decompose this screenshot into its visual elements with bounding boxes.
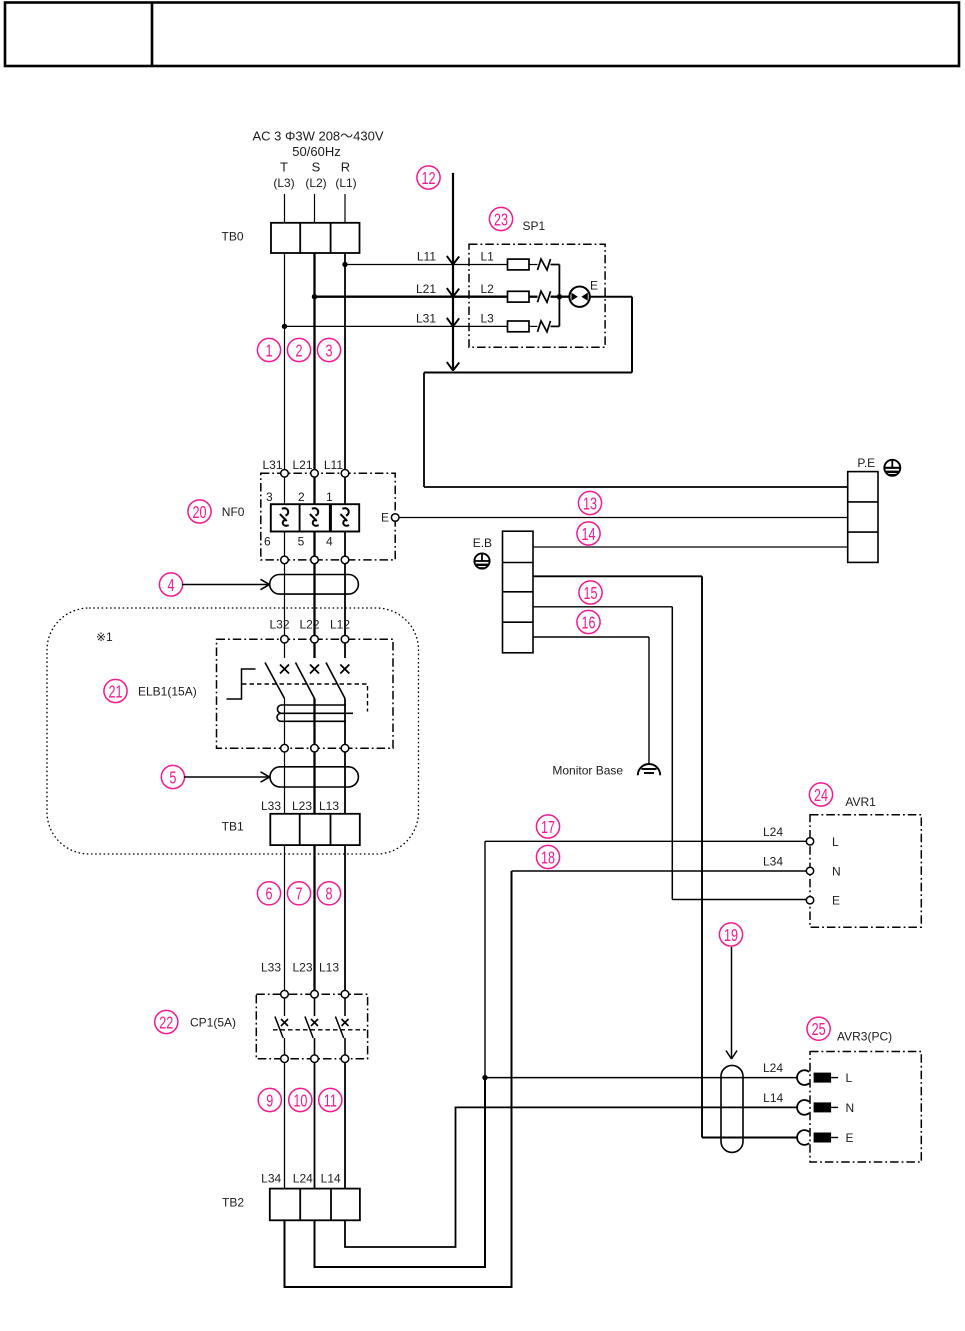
junction dot R/L11	[342, 262, 347, 267]
svg-text:21: 21	[108, 682, 122, 702]
svg-text:(L1): (L1)	[335, 176, 356, 190]
terminal block TB2	[270, 1189, 360, 1221]
wire SP1 internal bus	[558, 265, 560, 327]
contact cross pole T	[280, 665, 289, 674]
svg-text:L23: L23	[292, 960, 312, 974]
connector arc AVR3 E	[797, 1130, 809, 1145]
node 24	[809, 783, 832, 806]
wire SP1 earth down	[631, 297, 633, 373]
breaker NF0 box	[261, 473, 395, 560]
wire NF0 pole T internal	[284, 477, 286, 556]
wire R CP1 to TB2	[344, 1063, 346, 1189]
terminal block TB0	[271, 223, 360, 253]
arrow on bus at L31	[447, 318, 459, 327]
svg-text:※1: ※1	[96, 630, 113, 644]
junction dot T/L31	[282, 324, 287, 329]
svg-text:ELB1(15A): ELB1(15A)	[138, 685, 197, 699]
wire T ELB1 to TB1	[284, 752, 286, 814]
wire bus to lamp	[559, 296, 570, 298]
terminal circle NF0 E	[391, 514, 399, 522]
terminal block P.E	[848, 472, 878, 563]
svg-text:CP1(5A): CP1(5A)	[190, 1016, 236, 1030]
dotted option box	[47, 608, 419, 854]
wire AVR1 E	[672, 899, 806, 901]
wire ELB1 pole T lower	[284, 699, 286, 745]
svg-text:1: 1	[265, 341, 272, 361]
svg-text:N: N	[832, 864, 841, 878]
svg-text:AVR3(PC): AVR3(PC)	[837, 1030, 892, 1044]
wire S ELB1 to TB1	[313, 752, 315, 814]
earth symbol E.B	[474, 553, 489, 568]
svg-text:3: 3	[325, 341, 332, 361]
regulator AVR3 box	[810, 1052, 921, 1163]
wire L21	[315, 296, 508, 298]
node 20	[188, 500, 211, 523]
wire NF0 pole S internal	[313, 477, 315, 556]
node 21	[104, 679, 127, 702]
wire varistor to arrester L3	[529, 325, 538, 327]
terminal circle AVR1 E	[806, 897, 813, 904]
wire arrester L1 to bus	[551, 264, 560, 266]
breaker element pole 3	[280, 508, 289, 526]
svg-text:(L3): (L3)	[273, 176, 294, 190]
svg-text:1: 1	[326, 490, 333, 504]
svg-text:L: L	[846, 1071, 853, 1085]
breaker element pole 1	[340, 508, 349, 526]
node 1	[257, 338, 280, 361]
svg-text:19: 19	[724, 926, 738, 946]
wire S above TB0	[314, 194, 316, 223]
svg-text:TB2: TB2	[222, 1196, 244, 1210]
breaker ELB1 box	[217, 639, 394, 748]
svg-text:L33: L33	[261, 799, 281, 813]
svg-text:L23: L23	[292, 799, 312, 813]
svg-text:P.E: P.E	[857, 456, 875, 470]
wire 18 horizontal	[512, 870, 807, 872]
svg-text:9: 9	[266, 1091, 273, 1111]
wire SP1 earth left	[424, 372, 632, 374]
wire R above TB0	[344, 194, 346, 223]
earth symbol P.E	[884, 460, 900, 476]
wire 14 E.B to P.E	[533, 546, 848, 548]
varistor L1	[508, 259, 530, 270]
svg-text:L: L	[832, 835, 839, 849]
contact cross CP1 T	[281, 1019, 288, 1026]
terminal circle AVR1 N	[806, 867, 813, 874]
svg-text:20: 20	[193, 503, 207, 523]
svg-text:24: 24	[814, 786, 828, 806]
svg-text:AVR1: AVR1	[845, 795, 876, 809]
wire S phase TB0 to NF0	[313, 253, 315, 470]
svg-text:TB0: TB0	[221, 230, 243, 244]
node 16	[577, 610, 600, 633]
arrow on bus at L21	[447, 288, 459, 297]
svg-text:L22: L22	[299, 618, 319, 632]
svg-text:L34: L34	[261, 1172, 281, 1186]
wire NF0 pole R internal	[344, 477, 346, 556]
wire T phase TB0 to NF0	[284, 253, 286, 470]
wire E.B to AVR3 E horizontal	[533, 575, 702, 577]
node 7	[287, 882, 310, 905]
breaker CP1 box	[256, 994, 367, 1058]
wire L24 to AVR3 L	[485, 1077, 798, 1079]
node 11	[319, 1088, 342, 1111]
svg-text:T: T	[280, 159, 288, 174]
svg-text:SP1: SP1	[523, 219, 546, 233]
contact cross pole S	[310, 665, 319, 674]
svg-text:6: 6	[264, 535, 271, 549]
arrow node 19	[726, 947, 737, 1059]
wire R ELB1 to TB1	[344, 752, 346, 814]
svg-text:18: 18	[541, 848, 555, 868]
svg-text:E.B: E.B	[473, 536, 492, 550]
wire AVR3 E horizontal	[702, 1137, 798, 1139]
svg-text:L24: L24	[763, 1061, 783, 1075]
wire 13 NF0 E to PE	[399, 517, 848, 519]
breaker blade pole T	[265, 663, 285, 699]
svg-text:NF0: NF0	[222, 505, 245, 519]
svg-text:L13: L13	[319, 799, 339, 813]
node 17	[536, 815, 559, 838]
wire R phase TB0 to NF0	[344, 253, 346, 470]
arrow at bus bottom	[447, 362, 459, 371]
node 8	[317, 882, 340, 905]
svg-text:N: N	[846, 1101, 855, 1115]
contact cross pole R	[340, 665, 349, 674]
svg-text:L11: L11	[324, 458, 343, 472]
wire CP1 pole S lower	[314, 1038, 316, 1055]
wire SP1 earth down 2	[423, 373, 425, 488]
contact cross CP1 S	[311, 1019, 318, 1026]
junction dot SP1 bus	[557, 294, 562, 299]
wire 17 vertical	[484, 841, 486, 1077]
terminal block E.B	[503, 531, 534, 653]
svg-text:11: 11	[324, 1091, 337, 1111]
terminal circles NF0 bottom	[281, 556, 349, 564]
linkage dashed ELB1	[242, 684, 368, 712]
wire T TB1 to CP1	[284, 845, 286, 990]
node 6	[257, 882, 280, 905]
svg-text:22: 22	[159, 1013, 173, 1033]
arrester gap L3	[538, 321, 551, 332]
arrester gap L1	[538, 259, 551, 270]
terminal circle AVR1 L	[806, 838, 813, 845]
terminal circles ELB1 top	[281, 635, 349, 643]
regulator AVR1 box	[810, 815, 921, 928]
svg-text:5: 5	[298, 535, 305, 549]
wire ELB1 pole S lower	[313, 699, 315, 745]
svg-text:E: E	[590, 279, 598, 293]
terminal circles CP1 bottom	[281, 1055, 349, 1063]
wire L14 TB2 to AVR3 N	[345, 1107, 798, 1247]
surge protector SP1 box	[469, 244, 605, 347]
svg-text:S: S	[312, 159, 321, 174]
wire 17 horizontal	[485, 840, 806, 842]
svg-text:23: 23	[494, 210, 508, 230]
wire T NF0 to ELB1	[284, 564, 286, 636]
svg-text:17: 17	[541, 818, 555, 838]
svg-text:L1: L1	[481, 250, 495, 264]
ferrite core 4	[270, 575, 359, 595]
chassis earth monitor base	[638, 764, 660, 775]
wire T CP1 to TB2	[284, 1063, 286, 1189]
svg-text:7: 7	[295, 885, 302, 905]
node 9	[258, 1088, 281, 1111]
svg-text:R: R	[341, 159, 350, 174]
node 22	[155, 1010, 178, 1033]
ZCT coil ELB1	[277, 705, 353, 721]
wire bus 12 vertical	[452, 173, 454, 371]
terminal block TB1	[270, 814, 360, 845]
svg-text:14: 14	[582, 525, 596, 545]
wire T above TB0	[284, 194, 286, 223]
svg-text:5: 5	[169, 768, 176, 788]
wire E.B to AVR3 E vertical	[701, 576, 703, 1137]
wire L34 TB2 to AVR1 N	[285, 871, 512, 1287]
svg-text:L21: L21	[292, 458, 312, 472]
node 2	[287, 338, 310, 361]
svg-text:L34: L34	[763, 854, 783, 868]
svg-text:13: 13	[583, 494, 597, 514]
terminal circles ELB1 bottom	[281, 744, 349, 752]
svg-text:6: 6	[265, 885, 272, 905]
svg-text:Monitor Base: Monitor Base	[552, 763, 623, 777]
wire R NF0 to ELB1	[344, 564, 346, 636]
svg-text:E: E	[832, 894, 840, 908]
wire SP1 earth to PE	[424, 486, 848, 488]
varistor L3	[508, 321, 530, 332]
svg-text:L21: L21	[416, 282, 436, 296]
title block frame	[5, 3, 959, 67]
wire 15 E.B to AVR1 E horizontal	[533, 606, 672, 608]
wire CP1 pole R upper	[344, 998, 346, 1016]
svg-text:2: 2	[298, 490, 305, 504]
breaker blade pole S	[296, 663, 315, 699]
ferrite core AVR3	[721, 1065, 743, 1152]
svg-text:(L2): (L2)	[305, 176, 326, 190]
svg-text:L32: L32	[269, 618, 289, 632]
wire CP1 pole T upper	[284, 998, 286, 1016]
node 13	[578, 491, 601, 514]
wire arrester L3 to bus	[551, 325, 560, 327]
node 10	[289, 1088, 312, 1111]
varistor L2	[508, 291, 530, 302]
arrow node 4	[182, 579, 270, 589]
wire varistor to arrester L2	[529, 296, 538, 298]
node 15	[579, 581, 602, 604]
svg-text:4: 4	[168, 576, 175, 596]
contact cross CP1 R	[342, 1019, 349, 1026]
trip lever ELB1	[227, 669, 256, 699]
breaker element pole 2	[310, 508, 319, 526]
svg-text:10: 10	[293, 1091, 307, 1111]
breaker blade CP1 T	[275, 1017, 283, 1039]
svg-text:L31: L31	[416, 312, 436, 326]
wire R TB1 to CP1	[344, 845, 346, 990]
wire 16 vertical	[648, 637, 650, 765]
connector pin AVR3 L	[814, 1073, 838, 1083]
breaker blade pole R	[326, 663, 345, 699]
node 19	[719, 923, 742, 946]
wire ELB1 pole R lower	[344, 699, 346, 745]
connector arc AVR3 N	[797, 1100, 809, 1115]
linkage dashed CP1	[273, 1029, 366, 1031]
svg-text:L12: L12	[330, 618, 350, 632]
wire lamp to right	[589, 296, 632, 298]
node 14	[577, 522, 600, 545]
svg-text:L33: L33	[261, 960, 281, 974]
arrow on bus at L11	[447, 256, 459, 265]
svg-text:25: 25	[812, 1020, 826, 1040]
svg-text:L14: L14	[321, 1172, 341, 1186]
svg-text:50/60Hz: 50/60Hz	[292, 144, 340, 159]
terminal circles CP1 top	[281, 990, 349, 998]
svg-text:TB1: TB1	[222, 820, 244, 834]
wire varistor to arrester L1	[529, 264, 538, 266]
connector pin AVR3 E	[814, 1133, 838, 1143]
wire S NF0 to ELB1	[313, 564, 315, 636]
wire CP1 pole T lower	[284, 1038, 286, 1055]
wire S CP1 to TB2	[314, 1063, 316, 1189]
connector pin AVR3 N	[814, 1102, 838, 1112]
svg-text:4: 4	[326, 535, 333, 549]
svg-text:L14: L14	[763, 1091, 783, 1105]
node 5	[161, 765, 184, 788]
wire 16 E.B to monitor base	[533, 636, 649, 638]
discharge lamp SP1	[569, 287, 589, 307]
svg-text:L31: L31	[262, 458, 282, 472]
svg-text:2: 2	[295, 341, 302, 361]
arrester gap L2	[538, 291, 551, 302]
svg-text:16: 16	[581, 613, 595, 633]
breaker blade CP1 S	[305, 1017, 313, 1039]
svg-text:L11: L11	[417, 250, 436, 264]
svg-text:L24: L24	[763, 825, 783, 839]
breaker blade CP1 R	[335, 1017, 343, 1039]
wire CP1 pole R lower	[344, 1038, 346, 1055]
node 3	[317, 338, 340, 361]
connector arc AVR3 L	[797, 1070, 809, 1085]
arrow node 5	[184, 772, 270, 782]
node 4	[159, 573, 182, 596]
svg-text:L13: L13	[319, 960, 339, 974]
wire ELB1 pole S upper	[313, 643, 315, 658]
svg-text:L24: L24	[293, 1172, 313, 1186]
svg-text:3: 3	[266, 490, 273, 504]
node 12	[417, 166, 440, 189]
source label AC 3phase	[252, 129, 383, 190]
wire L11	[345, 264, 508, 266]
ferrite core 5	[270, 767, 358, 787]
breaker NF0 body	[271, 504, 359, 531]
wire ELB1 pole T upper	[284, 643, 286, 658]
svg-text:L2: L2	[481, 282, 495, 296]
wire CP1 pole S upper	[314, 998, 316, 1016]
junction dot S/L21	[312, 294, 317, 299]
node 25	[807, 1017, 830, 1040]
svg-text:L3: L3	[481, 312, 495, 326]
wire arrester L2 to bus	[551, 296, 560, 298]
svg-text:8: 8	[325, 885, 332, 905]
svg-text:E: E	[846, 1131, 854, 1145]
svg-text:12: 12	[421, 169, 435, 189]
wire 15 vertical	[671, 607, 673, 900]
wire L31	[285, 325, 508, 327]
wire L24 TB2 riser	[315, 1078, 486, 1267]
terminal circles NF0 top	[281, 470, 349, 478]
svg-text:AC 3 Φ3W 208～430V: AC 3 Φ3W 208～430V	[252, 129, 383, 144]
node 23	[489, 207, 512, 230]
junction dot L24 branch	[482, 1075, 487, 1080]
svg-text:E: E	[381, 511, 389, 525]
svg-text:15: 15	[583, 584, 597, 604]
node 18	[536, 845, 559, 868]
wire ELB1 pole R upper	[344, 643, 346, 658]
wire S TB1 to CP1	[313, 845, 315, 990]
